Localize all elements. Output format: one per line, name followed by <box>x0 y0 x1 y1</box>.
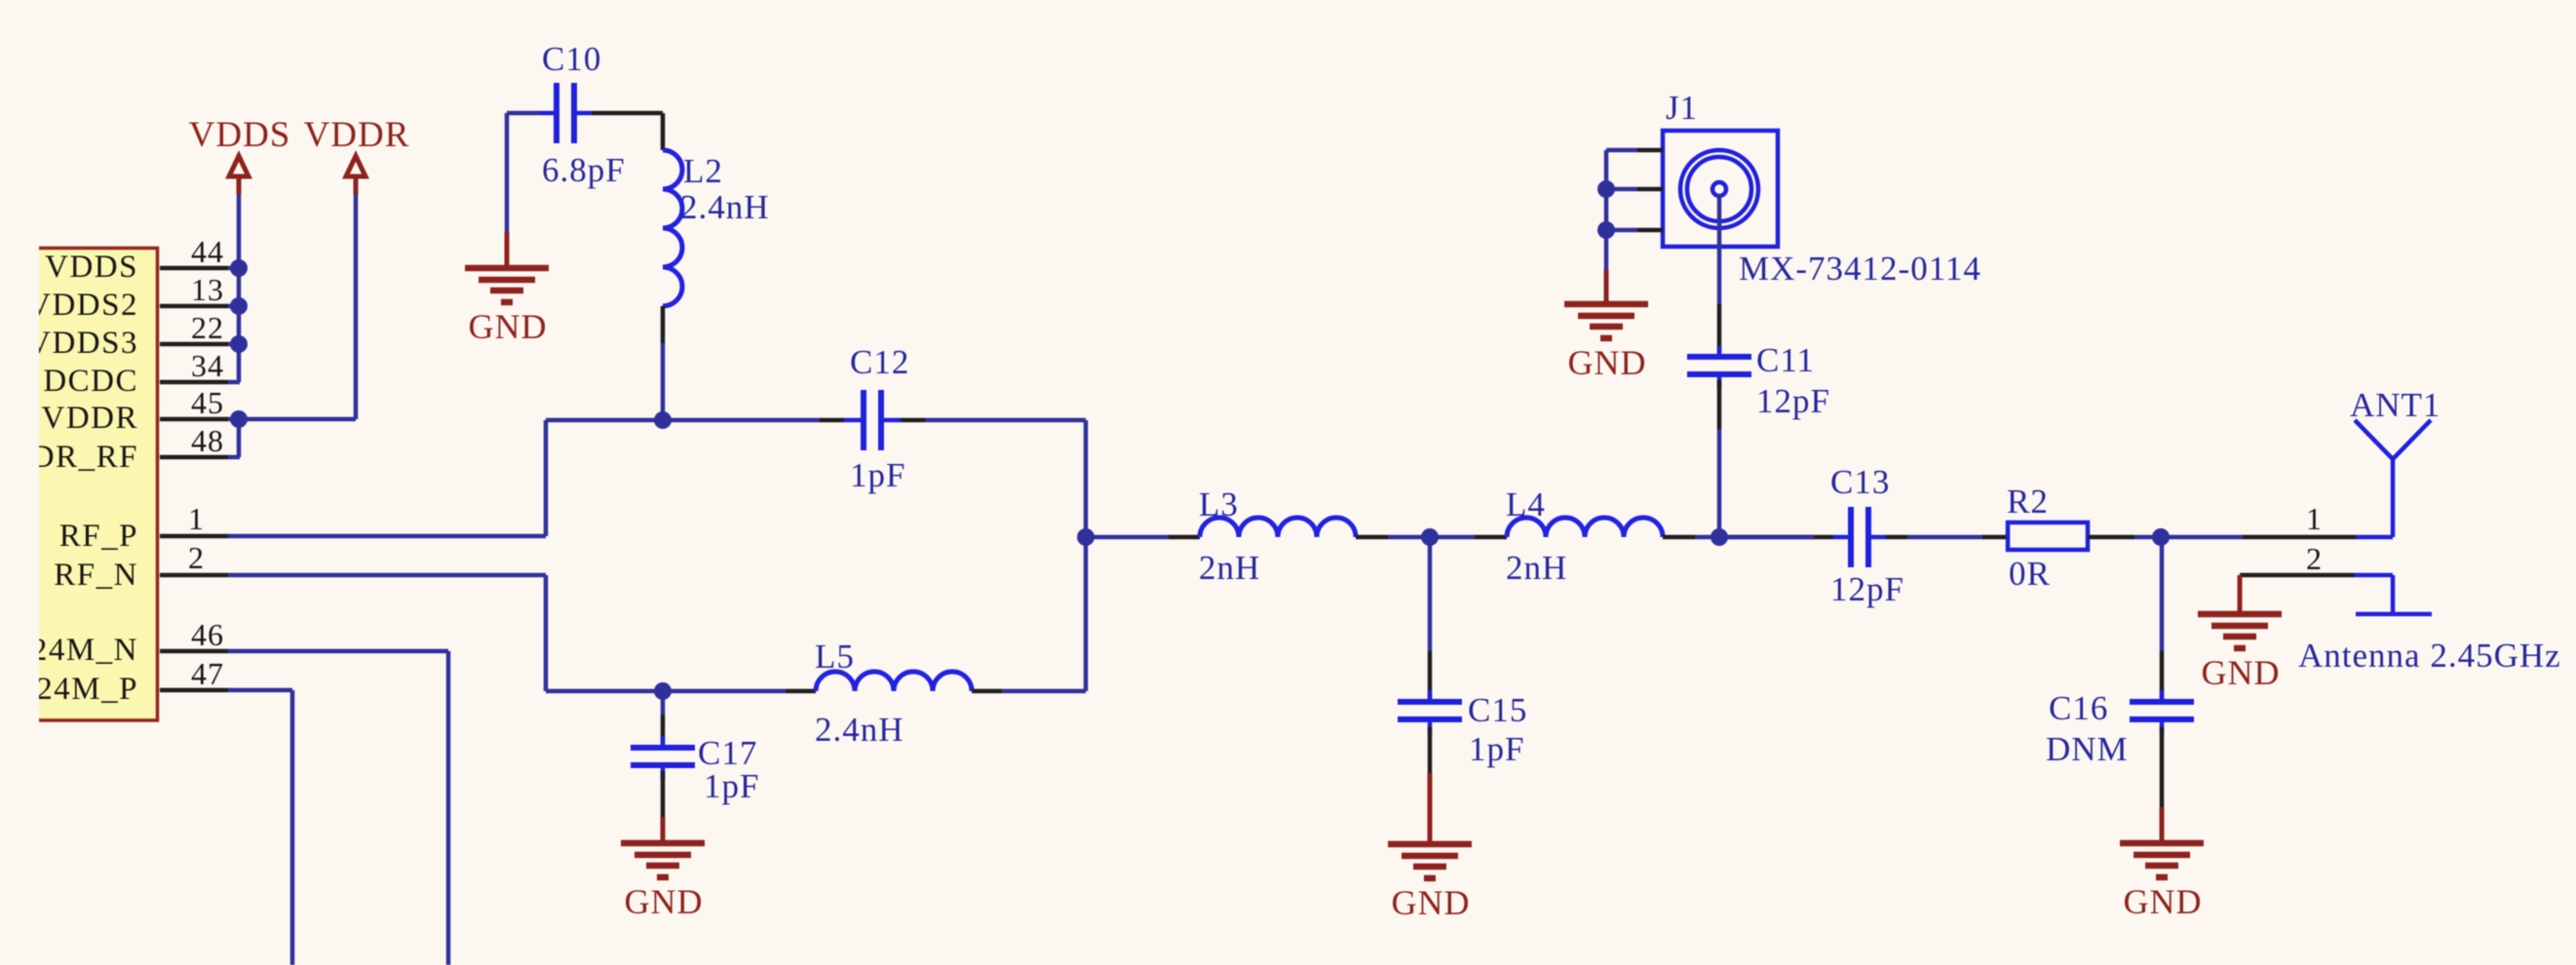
svg-text:12pF: 12pF <box>1756 382 1830 420</box>
power port VDDR <box>304 115 410 194</box>
svg-text:24M_P: 24M_P <box>36 672 138 707</box>
node pin13 junction <box>230 297 248 315</box>
svg-text:2.4nH: 2.4nH <box>815 711 904 749</box>
svg-text:47: 47 <box>191 656 224 691</box>
inductor L4 <box>1475 485 1695 587</box>
connector J1 <box>1637 89 1981 288</box>
wire pin 46 <box>228 651 448 965</box>
wire C13 to R2 <box>1907 535 1982 540</box>
wire balun right vertical <box>1084 420 1089 691</box>
svg-text:MX-73412-0114: MX-73412-0114 <box>1739 250 1981 288</box>
pin 13 VDDS2 <box>160 272 240 307</box>
svg-text:13: 13 <box>191 272 224 307</box>
svg-text:22: 22 <box>191 310 224 345</box>
svg-text:GND: GND <box>2124 882 2203 921</box>
svg-text:1: 1 <box>2306 501 2323 536</box>
IC pin names <box>27 250 138 707</box>
node C15 junction <box>1421 528 1439 546</box>
wire R2 to antenna node <box>2134 535 2243 540</box>
node balun output junction <box>1077 528 1095 546</box>
antenna ANT1 pin 1 <box>2243 501 2393 537</box>
svg-text:DCDC: DCDC <box>43 364 138 399</box>
svg-text:48: 48 <box>191 423 224 458</box>
wire pin45 to VDDR <box>239 417 356 422</box>
pin 34 DCDC <box>160 348 240 383</box>
wire pin 47 <box>228 690 292 965</box>
capacitor C15 <box>1398 537 1527 773</box>
svg-text:L2: L2 <box>683 152 723 190</box>
svg-text:VDDR: VDDR <box>41 401 138 436</box>
svg-text:L3: L3 <box>1199 485 1239 523</box>
svg-text:C15: C15 <box>1468 691 1527 729</box>
wire J1 shield bus <box>1606 150 1637 270</box>
node C11 junction <box>1711 528 1728 546</box>
ground GND at antenna <box>2198 575 2282 692</box>
wire top rail <box>546 418 1086 423</box>
node J1 shield junction A <box>1597 180 1615 198</box>
svg-text:C10: C10 <box>542 40 601 78</box>
svg-text:VDDS3: VDDS3 <box>27 326 138 361</box>
svg-text:Antenna 2.45GHz: Antenna 2.45GHz <box>2298 637 2561 675</box>
pin 44 VDDS <box>160 234 240 269</box>
node J1 shield junction B <box>1597 221 1615 239</box>
svg-text:46: 46 <box>191 617 224 652</box>
ground GND at J1 <box>1564 270 1648 382</box>
capacitor C13 <box>1719 463 1907 608</box>
svg-text:44: 44 <box>191 234 224 269</box>
inductor L3 <box>1169 485 1388 587</box>
capacitor C11 <box>1687 195 1830 537</box>
svg-text:GND: GND <box>2202 653 2281 692</box>
ground GND at C16 <box>2120 807 2204 921</box>
capacitor C16 <box>2046 537 2194 807</box>
wire RF_N <box>228 575 546 691</box>
svg-text:12pF: 12pF <box>1830 570 1904 608</box>
ground GND at C17 <box>621 817 705 921</box>
node antenna junction <box>2152 528 2170 546</box>
svg-text:GND: GND <box>469 307 548 346</box>
ground GND at C10 <box>465 232 549 346</box>
svg-text:VDDS2: VDDS2 <box>27 288 138 323</box>
svg-text:RF_N: RF_N <box>54 558 138 593</box>
wire VDDR vertical <box>354 194 359 419</box>
svg-text:45: 45 <box>191 385 224 420</box>
svg-text:VDDS: VDDS <box>45 250 138 285</box>
svg-text:ANT1: ANT1 <box>2350 386 2441 424</box>
pin 47 24M_P <box>160 656 228 691</box>
wire L4 to C11 node <box>1695 535 1814 540</box>
wire L3 to C15 node <box>1388 535 1475 540</box>
svg-text:6.8pF: 6.8pF <box>542 151 626 189</box>
svg-text:C16: C16 <box>2049 689 2108 727</box>
inductor L2 <box>663 113 770 343</box>
capacitor C12 <box>820 343 925 494</box>
node L2 top-rail junction <box>654 411 672 429</box>
svg-text:J1: J1 <box>1666 89 1698 127</box>
pin 45 VDDR <box>160 385 240 420</box>
svg-text:1pF: 1pF <box>704 767 759 805</box>
resistor R2 <box>1982 482 2134 593</box>
svg-text:L4: L4 <box>1506 485 1546 523</box>
svg-text:2: 2 <box>2306 541 2323 576</box>
capacitor C10 <box>507 40 663 189</box>
pin 22 VDDS3 <box>160 310 240 345</box>
wire L2 to top rail <box>661 343 666 420</box>
svg-text:2: 2 <box>188 540 205 575</box>
node pin22 junction <box>230 335 248 353</box>
svg-text:1pF: 1pF <box>1469 730 1524 768</box>
pin 1 RF_P <box>160 501 228 536</box>
svg-text:C12: C12 <box>850 343 909 381</box>
svg-text:L5: L5 <box>815 637 855 675</box>
wire pin48 riser <box>237 419 242 457</box>
svg-text:RF_P: RF_P <box>59 519 138 554</box>
svg-text:GND: GND <box>1568 343 1647 382</box>
svg-text:C11: C11 <box>1756 341 1815 379</box>
power port VDDS <box>189 115 291 194</box>
pin 48 DR_RF <box>160 423 240 458</box>
antenna ANT1 pin 2 <box>2240 541 2561 675</box>
svg-text:R2: R2 <box>2007 482 2049 521</box>
pin 46 24M_N <box>160 617 228 652</box>
inductor L5 <box>786 637 1002 749</box>
IC U1 body <box>39 247 159 721</box>
svg-text:2nH: 2nH <box>1199 549 1260 587</box>
svg-text:GND: GND <box>625 882 704 921</box>
svg-text:GND: GND <box>1392 883 1471 922</box>
node pin44 junction <box>230 259 248 277</box>
wire VDDS vertical bus <box>237 194 242 382</box>
capacitor C17 <box>631 691 759 817</box>
svg-text:1pF: 1pF <box>850 456 905 494</box>
wire C10 left drop <box>505 113 510 232</box>
node C17 bottom-rail junction <box>654 682 672 700</box>
wire rail to L3 <box>1086 535 1169 540</box>
wire bottom rail <box>546 689 1086 694</box>
svg-text:1: 1 <box>188 501 205 536</box>
svg-text:0R: 0R <box>2009 555 2051 593</box>
svg-text:34: 34 <box>191 348 224 383</box>
svg-text:DNM: DNM <box>2046 730 2129 768</box>
pin 2 RF_N <box>160 540 228 575</box>
wire RF_P <box>228 420 546 536</box>
svg-text:DR_RF: DR_RF <box>31 440 138 475</box>
svg-text:2nH: 2nH <box>1506 549 1567 587</box>
svg-text:VDDS: VDDS <box>189 115 291 155</box>
svg-text:2.4nH: 2.4nH <box>680 188 770 226</box>
svg-text:24M_N: 24M_N <box>31 633 138 668</box>
ground GND at C15 <box>1388 773 1472 922</box>
antenna ANT1 symbol <box>2350 386 2441 537</box>
svg-text:C13: C13 <box>1830 463 1890 501</box>
node pin45 junction <box>230 410 248 428</box>
svg-text:VDDR: VDDR <box>304 115 410 155</box>
